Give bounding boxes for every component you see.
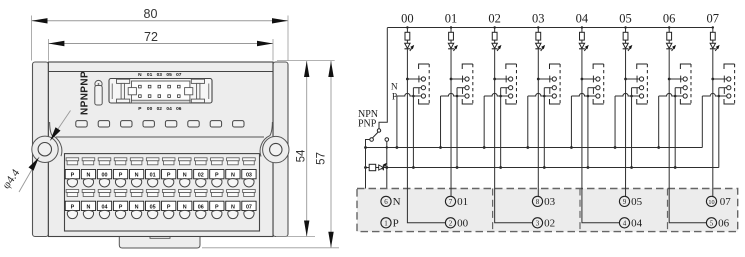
- svg-text:01: 01: [457, 196, 468, 208]
- svg-text:P: P: [393, 218, 399, 230]
- svg-text:04: 04: [102, 204, 108, 210]
- svg-text:PNP: PNP: [358, 119, 377, 130]
- svg-text:N: N: [86, 173, 90, 179]
- svg-text:6: 6: [384, 198, 388, 206]
- svg-text:N: N: [231, 173, 235, 179]
- svg-text:00: 00: [147, 106, 153, 112]
- svg-text:00: 00: [401, 12, 414, 26]
- svg-text:N: N: [183, 173, 187, 179]
- svg-text:2: 2: [449, 219, 453, 227]
- svg-text:04: 04: [576, 12, 589, 26]
- svg-text:06: 06: [663, 12, 676, 26]
- svg-text:02: 02: [488, 12, 501, 26]
- svg-text:01: 01: [150, 173, 156, 179]
- svg-text:P: P: [167, 204, 171, 210]
- svg-text:00: 00: [102, 173, 108, 179]
- svg-text:02: 02: [544, 218, 555, 230]
- svg-text:03: 03: [157, 72, 163, 78]
- svg-text:3: 3: [536, 219, 540, 227]
- svg-text:P: P: [392, 92, 397, 102]
- svg-text:03: 03: [532, 12, 545, 26]
- svg-text:1: 1: [384, 219, 388, 227]
- svg-text:02: 02: [198, 173, 204, 179]
- svg-text:04: 04: [631, 218, 643, 230]
- svg-text:54: 54: [296, 149, 308, 162]
- svg-text:05: 05: [619, 12, 632, 26]
- svg-text:05: 05: [631, 196, 643, 208]
- svg-text:P: P: [167, 173, 171, 179]
- svg-text:72: 72: [144, 30, 158, 44]
- svg-text:7: 7: [449, 198, 453, 206]
- svg-text:N: N: [138, 72, 142, 78]
- svg-text:07: 07: [176, 72, 182, 78]
- svg-text:05: 05: [166, 72, 172, 78]
- svg-text:03: 03: [544, 196, 556, 208]
- svg-text:07: 07: [246, 204, 252, 210]
- svg-text:N: N: [231, 204, 235, 210]
- svg-text:06: 06: [198, 204, 204, 210]
- svg-text:07: 07: [707, 12, 720, 26]
- svg-text:N: N: [391, 83, 398, 93]
- svg-text:10: 10: [708, 199, 714, 206]
- svg-text:P: P: [119, 204, 123, 210]
- svg-text:N: N: [135, 204, 139, 210]
- svg-text:07: 07: [720, 196, 732, 208]
- svg-text:80: 80: [144, 7, 158, 21]
- svg-text:5: 5: [710, 219, 714, 227]
- svg-text:06: 06: [176, 106, 182, 112]
- svg-text:04: 04: [166, 106, 172, 112]
- svg-text:4: 4: [623, 219, 627, 227]
- svg-text:01: 01: [445, 12, 458, 26]
- svg-text:02: 02: [157, 106, 163, 112]
- svg-text:8: 8: [536, 198, 540, 206]
- svg-text:P: P: [215, 204, 219, 210]
- svg-text:N: N: [86, 204, 90, 210]
- svg-text:N: N: [393, 196, 401, 208]
- svg-text:N: N: [135, 173, 139, 179]
- svg-text:05: 05: [150, 204, 156, 210]
- svg-text:P: P: [215, 173, 219, 179]
- svg-text:01: 01: [147, 72, 153, 78]
- svg-text:P: P: [119, 173, 123, 179]
- svg-text:P: P: [71, 173, 75, 179]
- svg-text:57: 57: [316, 152, 328, 165]
- svg-text:P: P: [71, 204, 75, 210]
- svg-text:9: 9: [623, 198, 627, 206]
- svg-text:N: N: [183, 204, 187, 210]
- svg-text:00: 00: [457, 218, 469, 230]
- svg-text:03: 03: [246, 173, 252, 179]
- svg-text:06: 06: [718, 218, 730, 230]
- svg-text:NPNPNP: NPNPNP: [79, 71, 90, 115]
